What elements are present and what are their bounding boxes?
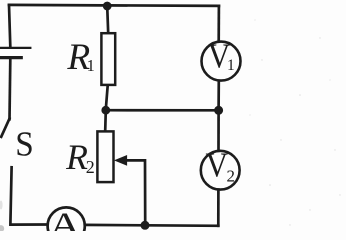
wire left column upper: [9, 5, 10, 47]
node bottom junction: [141, 221, 149, 229]
voltmeter V1 circle: [202, 42, 241, 81]
svg-text:1: 1: [227, 57, 235, 74]
wire mid node to V2: [217, 112, 220, 151]
switch S blade: [1, 119, 9, 137]
battery: [0, 48, 30, 119]
svg-text:A: A: [49, 205, 82, 231]
svg-text:2: 2: [86, 157, 95, 177]
wire V2 to bottom corner: [217, 190, 220, 226]
wire switch lower lead: [10, 167, 46, 224]
svg-text:2: 2: [227, 166, 236, 185]
wire R1 bottom lead: [106, 86, 108, 109]
node middle-left junction: [102, 106, 110, 114]
svg-text:S: S: [15, 124, 34, 163]
wire middle rail: [106, 109, 219, 112]
scan smudge bottom-left: [0, 201, 4, 232]
ammeter A circle: [48, 207, 85, 240]
resistor R2 rheostat: [97, 131, 113, 182]
resistor R1: [101, 33, 115, 85]
svg-text:1: 1: [87, 56, 95, 75]
wire V1 to middle node: [217, 81, 220, 108]
node top junction: [103, 2, 111, 10]
node middle-right junction: [214, 106, 222, 114]
wire top rail: [9, 5, 219, 6]
voltmeter V2 circle: [201, 151, 240, 190]
wire right column top: [217, 6, 220, 42]
wire R2 top lead: [104, 110, 107, 131]
wire R1 top lead: [107, 6, 108, 33]
wire bottom rail right of ammeter: [85, 224, 218, 228]
svg-text:V: V: [206, 145, 229, 184]
wiper arrow of R2: [115, 156, 145, 222]
faint speckles: [249, 19, 340, 225]
